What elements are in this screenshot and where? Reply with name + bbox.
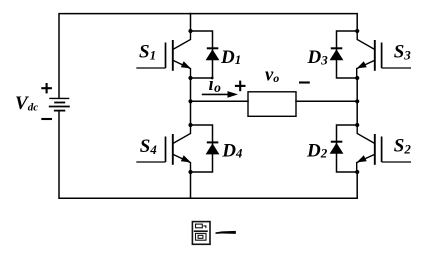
svg-text:S3: S3 xyxy=(394,41,412,62)
S2 gate bar xyxy=(381,137,383,163)
load minus sign xyxy=(299,81,310,83)
svg-text:Vdc: Vdc xyxy=(15,93,38,114)
wire: load left wire from output node A xyxy=(191,100,249,102)
D1 anode triangle xyxy=(206,49,220,60)
S1 body bar xyxy=(172,40,174,71)
D2 cathode bar xyxy=(331,141,343,143)
wire: left leg between S1 emitter and S4 collector (through output node) xyxy=(190,78,192,125)
transistor S3 (IGBT, mirrored) xyxy=(357,31,411,78)
svg-text:vo: vo xyxy=(265,66,279,86)
wire: D3 branch loop xyxy=(337,31,358,78)
D3 cathode bar xyxy=(331,47,343,49)
wire: left bridge leg from top rail down to S1 collector node xyxy=(190,14,192,32)
svg-text:D4: D4 xyxy=(221,140,243,161)
S4 gate lead xyxy=(136,161,165,163)
S2 emitter arrowhead xyxy=(357,155,367,162)
svg-text:S1: S1 xyxy=(139,42,156,63)
wire: top rail from battery top-left corner to right leg xyxy=(59,14,357,99)
load box (output) xyxy=(248,92,296,117)
svg-text:D3: D3 xyxy=(307,47,329,68)
load plus sign xyxy=(235,81,246,92)
S3 body bar xyxy=(374,40,376,71)
S4 body bar xyxy=(172,134,174,165)
svg-text:D1: D1 xyxy=(220,47,241,68)
S1 collector xyxy=(173,31,191,50)
S4 collector xyxy=(173,125,191,144)
wire: D2 branch loop xyxy=(337,125,358,172)
battery plus sign xyxy=(41,83,52,93)
diode D3 xyxy=(330,48,344,60)
S2 collector xyxy=(357,125,375,144)
transistor S1 (IGBT) xyxy=(136,31,190,78)
transistor S4 (IGBT) xyxy=(136,125,190,172)
D4 cathode bar xyxy=(207,141,219,143)
diode D4 xyxy=(206,142,220,154)
battery minus sign xyxy=(41,118,52,120)
diode D2 xyxy=(330,142,344,154)
S1 gate lead xyxy=(136,67,165,69)
S3 emitter xyxy=(357,60,375,78)
S2 gate lead xyxy=(382,161,411,163)
S3 collector xyxy=(357,31,375,50)
node A4: S4 collector junction xyxy=(188,123,192,127)
D2 anode triangle xyxy=(330,143,344,154)
node B1: S3 collector junction xyxy=(355,29,359,33)
S4 gate bar xyxy=(165,137,167,163)
svg-text:S4: S4 xyxy=(140,136,158,157)
battery Vdc xyxy=(49,98,70,110)
svg-text:D2: D2 xyxy=(306,140,328,161)
io current arrow xyxy=(202,91,238,98)
S1 gate bar xyxy=(165,43,167,69)
wire: right leg between S3 emitter and S2 collector (through output node) xyxy=(356,78,358,125)
D4 anode triangle xyxy=(206,143,220,154)
caption: hanzi YI (one) drawn as a bar xyxy=(216,231,236,234)
wire: load right wire to output node B xyxy=(296,100,357,102)
node B5: S2 emitter junction xyxy=(355,170,359,174)
wire: left leg from S4 emitter down to bottom rail xyxy=(190,172,192,198)
node B4: S2 collector junction xyxy=(355,123,359,127)
svg-text:io: io xyxy=(209,75,222,95)
diode D1 xyxy=(206,48,220,60)
S4 emitter xyxy=(173,154,191,172)
D1 cathode bar xyxy=(207,47,219,49)
S2 emitter xyxy=(357,154,375,172)
S3 gate bar xyxy=(381,43,383,69)
node A1: S1 collector junction xyxy=(188,29,192,33)
caption: hanzi TU (figure) drawn as shapes xyxy=(192,222,210,245)
node A5: S4 emitter junction xyxy=(188,170,192,174)
wire: bottom rail from battery bottom to right leg xyxy=(59,111,357,199)
wire: D4 branch loop xyxy=(191,125,213,172)
node A2: S1 emitter junction xyxy=(188,76,192,80)
wire: D1 branch loop xyxy=(191,31,213,78)
svg-text:S2: S2 xyxy=(394,135,412,156)
S1 emitter xyxy=(173,60,191,78)
transistor S2 (IGBT, mirrored) xyxy=(357,125,411,172)
D3 anode triangle xyxy=(330,49,344,60)
node B2: S3 emitter junction xyxy=(355,76,359,80)
node A3: left output node xyxy=(188,99,192,103)
S3 emitter arrowhead xyxy=(357,61,367,68)
S2 body bar xyxy=(374,134,376,165)
S1 emitter arrowhead xyxy=(181,61,191,68)
S3 gate lead xyxy=(382,67,411,69)
S4 emitter arrowhead xyxy=(181,155,191,162)
node B3: right output node xyxy=(355,99,359,103)
